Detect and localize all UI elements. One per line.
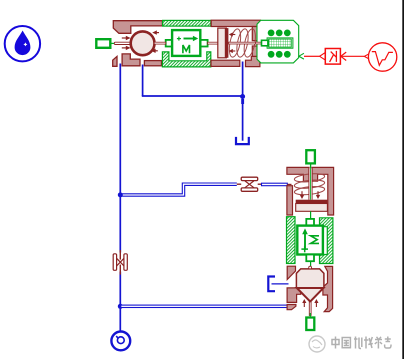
wire: signal line solenoid to gain bbox=[304, 55, 320, 57]
wire: pump outlet horizontal to junction bbox=[142, 95, 243, 97]
poppet valve V3 housing left-top wedge bbox=[287, 266, 295, 279]
wire: green link to pump bbox=[111, 42, 116, 44]
pump P1 arrow in bottom-left bbox=[122, 46, 131, 50]
tank T1 bbox=[236, 137, 249, 144]
wire: pump shaft signal port (green box) bbox=[96, 39, 110, 48]
relief valve V1 piston bbox=[218, 28, 227, 58]
gain K1 input arrowhead bbox=[320, 53, 326, 60]
source W1 circle bbox=[368, 43, 396, 71]
orifice R2 on left line bbox=[113, 250, 127, 275]
rod pump to motor bbox=[154, 42, 166, 44]
node J2 bbox=[118, 192, 123, 197]
motor U2 arrow up bbox=[302, 228, 308, 249]
motor U1 right stub bbox=[200, 40, 207, 47]
solenoid S1 outline bbox=[257, 20, 299, 63]
pilot valve V2 piston plate bbox=[296, 200, 328, 204]
wire: motor U2 to poppet bbox=[310, 261, 312, 266]
poppet valve V3 nub bbox=[309, 266, 312, 269]
pump P1 housing top bbox=[113, 21, 162, 34]
pump P1 housing L-block bottom bbox=[122, 54, 140, 66]
poppet valve V3 arrow up left bbox=[302, 299, 306, 307]
watermark logo bbox=[309, 336, 325, 352]
pilot valve V2 housing top-left bbox=[287, 167, 309, 181]
gain K1 label k (mirrored) bbox=[330, 51, 337, 62]
pump P1 arrow out top-right bbox=[152, 30, 159, 34]
poppet valve V3 housing left seat bbox=[287, 288, 301, 303]
pump P1 arrow in top-left bbox=[122, 36, 131, 40]
rod motor to valve piston bbox=[208, 42, 218, 44]
poppet valve V3 housing right block bbox=[323, 266, 333, 311]
relief valve V1 right column bbox=[252, 27, 260, 60]
motor U1 plus sign bbox=[177, 37, 181, 41]
gain K1 box bbox=[325, 49, 340, 65]
pump P1 shaft rod bbox=[114, 42, 131, 44]
watermark text 中国机械杂志 bbox=[332, 337, 391, 349]
motor U2 label M rotated bbox=[311, 236, 319, 244]
motor U1 label M bbox=[183, 45, 190, 53]
poppet valve V3 housing left shard bbox=[287, 305, 296, 310]
motor U1 body bbox=[172, 30, 200, 56]
relief valve V1 arrow bottom bbox=[229, 49, 236, 53]
poppet valve V3 stem bbox=[309, 302, 311, 316]
wire: pump outlet down bbox=[142, 65, 144, 97]
motor U1 top hatch strip bbox=[163, 20, 211, 26]
source W1 input arrowhead bbox=[364, 53, 370, 59]
pump P1 rotor circle bbox=[131, 31, 155, 55]
wire: tank T3 to poppet valve bbox=[272, 283, 289, 285]
motor U1 bottom hatch cradle bbox=[162, 52, 210, 67]
poppet valve V3 poppet box bbox=[296, 269, 324, 288]
source W1 waveform bbox=[372, 52, 393, 66]
pilot valve V2 green port top bbox=[306, 150, 315, 163]
pipe: junction to orifice (double line with jog) bbox=[121, 183, 237, 196]
relief valve V1 top bar bbox=[211, 20, 260, 26]
pilot valve V2 stem bbox=[309, 168, 312, 199]
node J1 bbox=[240, 94, 245, 99]
gain K1 right arrow bbox=[341, 52, 364, 60]
wire: poppet stem to port bbox=[309, 313, 311, 318]
solenoid S1 coil dots top bbox=[268, 30, 291, 37]
tank T2 (circle) bbox=[111, 332, 130, 351]
relief valve V1 piston plate bbox=[225, 28, 229, 58]
hatch C-bracket right of motor U2 bbox=[320, 218, 333, 264]
lead into pilot valve bbox=[287, 183, 291, 185]
orifice R1 lead left bbox=[237, 183, 241, 185]
wire: piston to motor U2 bbox=[310, 211, 312, 219]
pilot valve V2 housing top-right and right wall bbox=[312, 167, 334, 215]
pilot valve V2 stem green line bbox=[310, 163, 312, 170]
node J3 bbox=[118, 304, 123, 309]
motor U2 body bbox=[297, 226, 323, 255]
orifice R1 lead right bbox=[258, 183, 262, 185]
pump P1 housing bottom-right block bbox=[144, 61, 161, 66]
motor U1 left stub bbox=[166, 40, 172, 47]
pipe: orifice to pilot valve (double) bbox=[262, 183, 288, 186]
pipe: junction to poppet valve (double) bbox=[121, 305, 290, 307]
solenoid S1 signal arrow bbox=[299, 53, 304, 59]
window edge line bbox=[402, 0, 404, 359]
solenoid S1 coil dots bottom bbox=[268, 51, 291, 58]
pilot valve V2 piston body bbox=[296, 204, 328, 212]
solenoid S1 port box bbox=[262, 40, 268, 46]
relief valve V1 rod bbox=[228, 42, 260, 44]
hatch strip left of motor U2 bbox=[287, 217, 296, 264]
lead into poppet valve bbox=[290, 305, 294, 307]
poppet valve V3 funnel bbox=[297, 288, 324, 302]
relief valve V1 bottom bar left bbox=[211, 60, 240, 66]
fluid properties icon F1 bbox=[5, 26, 40, 61]
pilot valve V2 housing left wall bbox=[287, 186, 293, 215]
relief valve V1 spring bbox=[227, 28, 257, 58]
pump P1 housing shard bottom-left bbox=[113, 56, 117, 66]
tank T3 bracket bbox=[268, 277, 275, 292]
poppet valve V3 arrow up right bbox=[314, 299, 318, 307]
poppet valve V3 green port bottom bbox=[306, 318, 314, 331]
motor U2 top stub bbox=[306, 219, 314, 226]
wire: pump drain pipe left vertical bbox=[119, 64, 121, 331]
solenoid S1 armature grid bbox=[269, 39, 292, 47]
motor U2 bottom stub bbox=[306, 255, 314, 262]
wire: relief valve drain down to tank bbox=[242, 62, 244, 141]
motor U2 plus bbox=[301, 246, 308, 252]
pilot valve V2 arrow down right bbox=[316, 191, 320, 199]
relief valve V1 bottom bar right bbox=[246, 56, 260, 66]
pilot valve V2 arrow down left bbox=[300, 191, 304, 199]
pump P1 arrow out bottom-right bbox=[151, 49, 158, 53]
motor U1 arrow bbox=[184, 36, 199, 42]
relief valve V1 arrow top bbox=[229, 32, 236, 36]
solenoid S1 armature frame bbox=[267, 38, 293, 48]
orifice R1 bbox=[241, 177, 258, 191]
pilot valve V2 spring bbox=[294, 172, 325, 196]
rod valve to solenoid bbox=[256, 42, 262, 44]
